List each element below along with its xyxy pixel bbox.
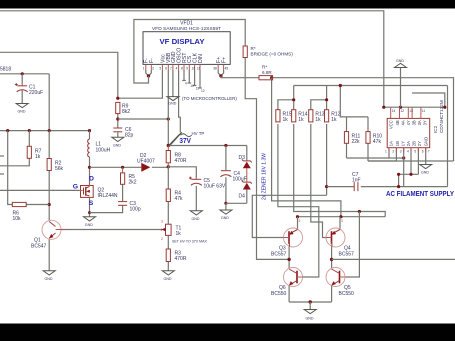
wire base q3 feed bbox=[252, 195, 326, 237]
svg-text:6.8R: 6.8R bbox=[262, 70, 272, 75]
wire bank drop2 bbox=[326, 86, 328, 110]
resistor R8 bbox=[166, 146, 187, 167]
node em2 bbox=[339, 215, 342, 218]
svg-text:3Y: 3Y bbox=[422, 120, 427, 125]
wire ic gnd pin bbox=[425, 148, 427, 165]
capacitor C5 bbox=[189, 177, 226, 190]
VFD pin numbers bbox=[143, 67, 229, 94]
svg-text:GND: GND bbox=[221, 216, 229, 220]
capacitor C7 bbox=[352, 172, 361, 191]
node fo2 bbox=[330, 258, 333, 261]
svg-text:GND: GND bbox=[421, 171, 429, 175]
svg-text:14: 14 bbox=[392, 109, 396, 113]
wire 5818 input bbox=[0, 73, 49, 75]
wire stub left2 bbox=[0, 173, 4, 175]
svg-text:5: 5 bbox=[414, 150, 416, 154]
svg-text:GND: GND bbox=[85, 223, 93, 227]
wire ic pin2 bbox=[368, 148, 396, 161]
svg-text:D4: D4 bbox=[239, 194, 246, 200]
svg-text:13: 13 bbox=[409, 109, 413, 113]
node C1 top bbox=[21, 72, 24, 75]
wire c4 gnd stem bbox=[225, 203, 227, 210]
IC2 CD74HCT132M bbox=[387, 118, 430, 147]
wire F- loop bbox=[134, 20, 245, 84]
svg-text:22k: 22k bbox=[352, 139, 361, 145]
wire vcc top-left bbox=[0, 52, 118, 98]
wire R7 top bbox=[28, 131, 30, 147]
wire c7 left bbox=[327, 186, 354, 188]
svg-text:1: 1 bbox=[143, 67, 145, 71]
wire vfd gnd pin bbox=[172, 70, 174, 97]
IC bottom pin stubs bbox=[389, 148, 426, 152]
svg-text:GND: GND bbox=[18, 110, 26, 114]
node vccr2 bbox=[399, 106, 402, 109]
wire input down bbox=[48, 74, 50, 131]
wire zener mid bbox=[246, 168, 248, 182]
svg-text:11: 11 bbox=[196, 87, 200, 91]
svg-text:GND: GND bbox=[423, 137, 428, 146]
svg-text:(TO MICROCONTROLLER): (TO MICROCONTROLLER) bbox=[182, 96, 237, 101]
wire main rail bbox=[0, 130, 90, 132]
svg-text:1k: 1k bbox=[331, 117, 337, 123]
svg-text:82p: 82p bbox=[125, 133, 134, 139]
svg-text:12: 12 bbox=[401, 109, 405, 113]
node fo1 bbox=[287, 258, 290, 261]
wire R2 column bbox=[48, 131, 50, 159]
wire osco tp bbox=[179, 70, 181, 133]
svg-text:7: 7 bbox=[428, 150, 430, 154]
resistor R6 bbox=[12, 202, 26, 222]
wire q5 base bbox=[345, 212, 360, 278]
resistor R14 bbox=[292, 110, 308, 123]
resistor R13 bbox=[309, 110, 325, 123]
node rail c bbox=[48, 129, 51, 132]
wire q4-q5 bbox=[331, 246, 333, 268]
inductor L1 bbox=[88, 139, 111, 157]
svg-text:2x ZENER 18V 1.3W: 2x ZENER 18V 1.3W bbox=[262, 153, 268, 200]
wire F+ down bbox=[272, 78, 341, 217]
wire D2 cathode bbox=[152, 166, 168, 168]
svg-text:56k: 56k bbox=[55, 166, 64, 172]
svg-text:R*: R* bbox=[262, 65, 267, 70]
wire C3 bottom to source bbox=[90, 206, 123, 213]
svg-text:IC2: IC2 bbox=[433, 125, 438, 133]
svg-text:2: 2 bbox=[161, 237, 163, 241]
svg-text:2k2: 2k2 bbox=[129, 180, 137, 186]
wire L1 to drain bbox=[89, 157, 91, 186]
wire vcc93 bbox=[412, 93, 445, 107]
svg-text:8k2: 8k2 bbox=[122, 109, 130, 115]
svg-text:UF4007: UF4007 bbox=[137, 159, 155, 165]
transistor Q1 BC547 bbox=[31, 220, 67, 249]
wire c5 gnd bbox=[195, 186, 197, 211]
node p4b bbox=[397, 185, 400, 188]
svg-text:3: 3 bbox=[299, 219, 301, 223]
svg-text:6: 6 bbox=[422, 150, 424, 154]
wire r14 to rail bbox=[294, 124, 386, 217]
svg-text:2: 2 bbox=[392, 150, 394, 154]
wire egnd stem bbox=[309, 302, 311, 310]
svg-text:12: 12 bbox=[201, 89, 205, 93]
svg-text:3: 3 bbox=[400, 150, 402, 154]
wire top net long bbox=[0, 11, 384, 107]
wire cs stub bbox=[188, 70, 190, 83]
VFD pin stubs bbox=[146, 64, 224, 70]
wire sense bbox=[118, 118, 169, 120]
resistor R11 bbox=[344, 132, 360, 145]
svg-text:R*: R* bbox=[251, 46, 256, 51]
transistor Q5 BC550 bbox=[326, 268, 354, 298]
svg-text:VF DISPLAY: VF DISPLAY bbox=[160, 37, 205, 46]
wire C1 to gnd bbox=[21, 91, 23, 104]
node rail L1 bbox=[88, 129, 91, 132]
svg-text:4B: 4B bbox=[395, 120, 400, 125]
svg-text:4: 4 bbox=[185, 82, 187, 86]
svg-text:1nF: 1nF bbox=[352, 177, 361, 183]
ground small under VFD gnd pin bbox=[167, 97, 179, 106]
wire bank drop1 bbox=[293, 86, 295, 110]
transistor Q6 BC550 bbox=[271, 268, 303, 298]
wire right col 1 bbox=[447, 86, 449, 187]
resistor R15 bbox=[276, 110, 292, 123]
wire C1 bbox=[21, 74, 23, 84]
wire p5 h bbox=[411, 173, 418, 175]
wire r11 top rail bbox=[340, 86, 368, 117]
node pin4 bbox=[409, 173, 412, 176]
wire vcc pin down bbox=[118, 70, 163, 98]
zener D4 bbox=[239, 181, 252, 200]
svg-text:1A: 1A bbox=[388, 141, 393, 146]
resistor R10 bbox=[366, 132, 382, 145]
ground under C1 bbox=[16, 104, 28, 114]
wire bank rail2 bbox=[311, 100, 327, 110]
node R9 top bbox=[116, 97, 119, 100]
svg-text:GND: GND bbox=[168, 102, 176, 106]
ground under IC bbox=[420, 165, 432, 175]
wire r11 bottom bbox=[346, 143, 348, 158]
wire r12 down bbox=[326, 124, 328, 195]
svg-text:47k: 47k bbox=[175, 196, 184, 202]
wire r11 stub bbox=[346, 117, 348, 132]
svg-text:1k: 1k bbox=[176, 231, 182, 237]
wire gate from left bbox=[0, 189, 79, 191]
node drain bbox=[88, 166, 91, 169]
trimmer T1 bbox=[161, 220, 208, 244]
svg-text:BC550: BC550 bbox=[271, 291, 287, 297]
wire out right bbox=[332, 258, 455, 260]
svg-text:VCC: VCC bbox=[388, 120, 393, 129]
svg-text:GND: GND bbox=[45, 277, 53, 281]
svg-text:GND: GND bbox=[396, 59, 404, 63]
wire R4 T1 bbox=[167, 202, 169, 225]
wire q5 e bbox=[331, 286, 333, 302]
wire bank rail1 bbox=[278, 100, 294, 110]
svg-text:1k: 1k bbox=[315, 117, 321, 123]
wire r13 to q4 base bbox=[311, 124, 326, 238]
node hv1 bbox=[167, 144, 170, 147]
svg-text:5818: 5818 bbox=[0, 67, 11, 73]
resistor R5 bbox=[121, 167, 137, 185]
wire drain to D2 bbox=[90, 166, 142, 168]
wire right col 2 bbox=[368, 160, 454, 162]
wire R3 gnd bbox=[167, 262, 169, 271]
svg-text:4A: 4A bbox=[400, 120, 405, 125]
node F- bbox=[147, 74, 150, 77]
wire R9 bottom bbox=[117, 114, 119, 128]
wire c7 right bbox=[361, 186, 448, 188]
node pin3 tie bbox=[402, 156, 405, 159]
node bank2 bbox=[325, 98, 328, 101]
ground under bridge bbox=[304, 310, 316, 321]
svg-text:7: 7 bbox=[170, 67, 172, 71]
capacitor C1 bbox=[15, 83, 43, 96]
VFD display box bbox=[143, 21, 230, 65]
wire R8 R4 col bbox=[167, 167, 169, 189]
svg-text:100uH: 100uH bbox=[96, 148, 111, 154]
resistor R7 bbox=[27, 146, 41, 160]
svg-text:GND: GND bbox=[306, 317, 314, 321]
node c7 tap bbox=[325, 185, 328, 188]
svg-text:47k: 47k bbox=[373, 139, 382, 145]
svg-text:4Y: 4Y bbox=[406, 120, 411, 125]
transistor Q3 BC557 bbox=[271, 219, 303, 258]
wire F+ join bbox=[218, 70, 223, 76]
svg-text:1k: 1k bbox=[298, 117, 304, 123]
wire emitter rail bbox=[298, 216, 386, 218]
svg-text:100p: 100p bbox=[130, 207, 141, 213]
node R5 top bbox=[121, 166, 124, 169]
svg-text:1: 1 bbox=[161, 228, 163, 232]
svg-text:1k: 1k bbox=[35, 154, 41, 160]
wire F+ rail right bbox=[273, 78, 454, 161]
ground under C4 bbox=[220, 210, 232, 220]
svg-text:BC557: BC557 bbox=[271, 252, 287, 258]
svg-text:BC557: BC557 bbox=[339, 252, 355, 258]
capacitor C3 bbox=[118, 201, 141, 213]
node rail a bbox=[6, 129, 9, 132]
wire HV rail bbox=[168, 145, 247, 147]
svg-text:GND: GND bbox=[192, 217, 200, 221]
svg-text:11: 11 bbox=[197, 67, 201, 71]
ground under C6 bbox=[112, 137, 124, 147]
svg-text:10: 10 bbox=[192, 67, 196, 71]
wire q6 e bbox=[288, 286, 290, 302]
wire zener low bbox=[246, 190, 248, 204]
wire ic pin1 bbox=[347, 148, 390, 158]
wire ic pin4 bbox=[399, 148, 411, 187]
svg-text:2: 2 bbox=[152, 67, 154, 71]
wire clk stub bbox=[194, 70, 196, 86]
transistor Q4 BC557 bbox=[326, 219, 354, 258]
resistor R* 6.8R bbox=[259, 65, 273, 80]
node hv2 bbox=[224, 144, 227, 147]
wire r15 to q6 base bbox=[278, 124, 319, 277]
wire c5 branch bbox=[168, 167, 196, 179]
wire vcc rail bbox=[384, 106, 445, 108]
node c4b bbox=[224, 202, 227, 205]
test point HV TP bbox=[168, 131, 204, 146]
node p4 bbox=[397, 173, 400, 176]
svg-text:D3: D3 bbox=[239, 155, 246, 161]
node bank1 bbox=[292, 98, 295, 101]
wire bank feed bbox=[294, 85, 448, 87]
wire emitter gnd rail bbox=[289, 301, 332, 303]
svg-text:GND: GND bbox=[113, 144, 121, 148]
node em1 bbox=[296, 215, 299, 218]
svg-text:10: 10 bbox=[190, 84, 194, 88]
wire R2 to Q1 bbox=[48, 171, 50, 221]
wire R7 bottom bbox=[0, 158, 29, 166]
wire Q1 base to T1 bbox=[61, 229, 162, 231]
svg-text:S: S bbox=[89, 200, 94, 207]
svg-text:3A: 3A bbox=[417, 120, 422, 125]
svg-text:8: 8 bbox=[181, 67, 183, 71]
svg-text:BC547: BC547 bbox=[31, 244, 47, 250]
svg-text:G: G bbox=[73, 184, 78, 191]
svg-text:220uF: 220uF bbox=[29, 90, 43, 96]
ground under R3 bbox=[162, 271, 174, 281]
resistor R9 bbox=[116, 102, 131, 115]
svg-text:2B: 2B bbox=[411, 141, 416, 146]
svg-text:3B: 3B bbox=[411, 120, 416, 125]
wire R6 left column bbox=[8, 131, 13, 205]
node egnd bbox=[309, 300, 312, 303]
node r11top bbox=[339, 84, 342, 87]
svg-text:1B: 1B bbox=[395, 141, 400, 146]
wire stub left1 bbox=[0, 155, 4, 157]
top letterbox black bar bbox=[0, 0, 455, 9]
wire r10 bottom bbox=[367, 143, 369, 161]
wire L1 top bbox=[89, 131, 91, 139]
svg-text:IRLZ44N: IRLZ44N bbox=[98, 193, 118, 199]
wire F- join bbox=[146, 70, 152, 76]
svg-text:10k: 10k bbox=[13, 216, 22, 222]
zener D3 bbox=[239, 155, 252, 168]
VFD pin names bbox=[144, 48, 228, 63]
wire c4 bottom bbox=[225, 177, 227, 203]
svg-text:GND: GND bbox=[164, 277, 172, 281]
svg-text:37V: 37V bbox=[179, 138, 191, 145]
svg-text:D: D bbox=[89, 176, 94, 183]
wire r10 stub bbox=[367, 117, 369, 132]
svg-text:F-: F- bbox=[149, 58, 155, 63]
node F+ bbox=[219, 74, 222, 77]
svg-text:1: 1 bbox=[385, 150, 387, 154]
capacitor C6 bbox=[113, 127, 133, 139]
wire ic pin5 bbox=[417, 148, 419, 175]
node d2c bbox=[167, 165, 170, 168]
svg-text:11: 11 bbox=[422, 109, 426, 113]
wire c4 top bbox=[225, 146, 227, 171]
svg-text:470R: 470R bbox=[175, 158, 187, 164]
wire VBB down bbox=[167, 70, 169, 146]
wire gnd-up stem bbox=[400, 68, 402, 108]
resistor R12 bbox=[325, 110, 341, 123]
resistor R3 bbox=[166, 249, 187, 262]
wire F+ rail bbox=[221, 76, 259, 78]
svg-text:5: 5 bbox=[159, 67, 161, 71]
svg-text:F+: F+ bbox=[222, 57, 228, 63]
svg-text:45: 45 bbox=[225, 67, 229, 71]
node vccr3 bbox=[443, 106, 446, 109]
svg-text:470R: 470R bbox=[175, 256, 187, 262]
wire Q1 emitter bbox=[48, 239, 50, 270]
diode D2 UF4007 bbox=[137, 153, 155, 172]
node R6 right bbox=[48, 203, 51, 206]
svg-text:3: 3 bbox=[161, 220, 163, 224]
svg-text:6: 6 bbox=[165, 67, 167, 71]
ground inverted near IC bbox=[395, 59, 407, 68]
svg-text:4: 4 bbox=[176, 67, 178, 71]
node vccr1 bbox=[382, 106, 385, 109]
wire q3 e stub bbox=[297, 217, 299, 229]
svg-text:4: 4 bbox=[407, 150, 409, 154]
bottom letterbox black bar bbox=[0, 324, 455, 341]
wire R5 to C3 bbox=[122, 184, 124, 201]
wire q4 e stub bbox=[339, 217, 341, 229]
svg-text:HV TP: HV TP bbox=[192, 131, 205, 136]
node F+ branch bbox=[270, 76, 273, 79]
wire C6 gnd bbox=[117, 133, 119, 138]
node rail b bbox=[28, 129, 31, 132]
mosfet Q2 IRLZ44N bbox=[73, 176, 118, 207]
resistor R* bridge bbox=[243, 46, 293, 58]
ground under C5 bbox=[190, 211, 202, 221]
wire q3-q6 bbox=[288, 246, 290, 268]
wire din stub bbox=[199, 70, 201, 88]
svg-text:DIN: DIN bbox=[198, 54, 204, 63]
svg-text:9: 9 bbox=[186, 67, 188, 71]
wire R6 right bbox=[26, 204, 49, 206]
node R9 C6 bbox=[116, 117, 119, 120]
resistor R4 bbox=[166, 189, 183, 202]
svg-text:1k: 1k bbox=[283, 117, 289, 123]
wire ic pin3 bbox=[403, 148, 405, 187]
svg-text:SET HV TO 37V MAX: SET HV TO 37V MAX bbox=[172, 240, 208, 244]
svg-text:1Y: 1Y bbox=[400, 141, 405, 146]
ground under Q1 bbox=[43, 271, 55, 281]
capacitor C4 bbox=[220, 171, 246, 183]
wire T1 R3 bbox=[167, 235, 169, 249]
node sense vbb bbox=[167, 117, 170, 120]
svg-text:2Y: 2Y bbox=[417, 141, 422, 146]
wire rst stub bbox=[183, 70, 185, 81]
svg-text:38: 38 bbox=[213, 67, 217, 71]
wire bridge col bbox=[245, 58, 289, 260]
ground under Q2 bbox=[84, 217, 96, 227]
wire Q2 source bbox=[89, 199, 91, 217]
svg-text:VFD SAMSUNG HCS-12SS59T: VFD SAMSUNG HCS-12SS59T bbox=[152, 26, 221, 31]
wire zener bottom rail bbox=[226, 202, 247, 204]
node q5 feed bbox=[358, 210, 361, 213]
svg-text:BRIDGE (=0 OHMS): BRIDGE (=0 OHMS) bbox=[251, 52, 294, 57]
wire pin1-pin3 tie bbox=[389, 157, 404, 159]
svg-text:3: 3 bbox=[341, 219, 343, 223]
wire zener col bbox=[246, 146, 248, 161]
svg-text:2A: 2A bbox=[406, 141, 411, 146]
svg-text:10uF 63V: 10uF 63V bbox=[204, 184, 226, 190]
svg-text:CD74HCT132M: CD74HCT132M bbox=[439, 100, 444, 133]
svg-text:AC FILAMENT SUPPLY: AC FILAMENT SUPPLY bbox=[386, 191, 454, 198]
resistor R2 bbox=[47, 159, 63, 173]
svg-text:BC550: BC550 bbox=[339, 291, 355, 297]
